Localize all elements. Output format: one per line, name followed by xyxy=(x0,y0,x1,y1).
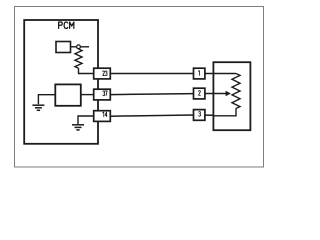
pin 1 label xyxy=(198,71,199,76)
wire pin 23 to pin 1 xyxy=(110,73,193,75)
wire middle box to pin 37 xyxy=(81,94,94,96)
sensor box (throttle position sensor potentiometer) xyxy=(213,62,250,130)
pin 37 label xyxy=(103,91,107,96)
wire resistor to pin 23 xyxy=(79,68,94,73)
pin 3 xyxy=(194,110,205,121)
pin 2 label xyxy=(199,91,201,96)
wire pin 14 to ground xyxy=(78,116,94,124)
pin 1 xyxy=(194,68,205,79)
wire sensor top to potentiometer xyxy=(213,73,236,75)
pin 3 label xyxy=(199,112,201,117)
label PCM xyxy=(59,22,74,28)
pin 23 label xyxy=(103,71,107,76)
wiper arrowhead xyxy=(226,91,231,96)
wire stub right of node xyxy=(81,46,89,48)
ground (left) xyxy=(32,105,44,110)
PCM module box xyxy=(24,20,98,144)
pin 23 xyxy=(94,68,111,79)
pin 14 xyxy=(94,111,111,122)
wire pin 14 to pin 3 xyxy=(110,115,193,116)
node (junction circle) xyxy=(77,45,81,49)
wire box to node xyxy=(71,46,77,48)
ground (bottom) xyxy=(72,125,84,130)
wire potentiometer bottom xyxy=(213,108,236,115)
wire pin 1 to sensor xyxy=(205,73,214,75)
internal box (amplifier) xyxy=(55,84,81,105)
pin 2 xyxy=(194,88,205,99)
wire middle box to ground xyxy=(38,95,55,105)
resistor (pull-up) xyxy=(75,49,82,68)
wiper wire pin 2 to arrow xyxy=(205,93,227,95)
wire pin 3 to sensor xyxy=(205,114,214,116)
internal box (5V reference) xyxy=(56,42,71,53)
potentiometer resistor xyxy=(232,74,240,109)
wire pin 37 to pin 2 xyxy=(110,94,193,95)
pin 14 label xyxy=(103,112,107,117)
pin 37 xyxy=(94,89,111,100)
